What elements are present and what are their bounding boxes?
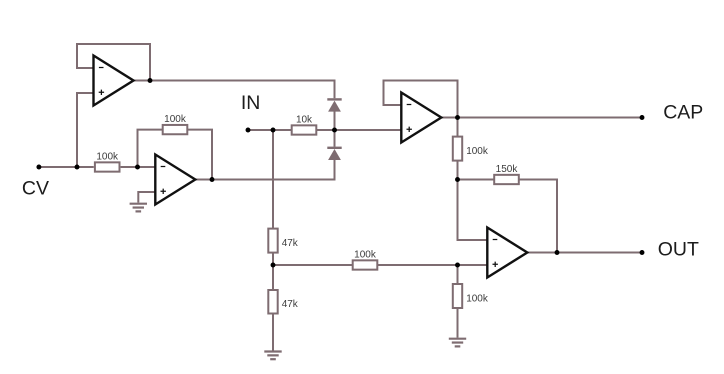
svg-text:CAP: CAP (663, 102, 703, 124)
resistor 100k (U3 output to U4 - node) (453, 137, 489, 161)
svg-text:100k: 100k (164, 114, 187, 125)
junction: divider mid node (271, 263, 276, 268)
wire: U1 output row to top diode D1 (134, 81, 335, 99)
wire: U2 feedback loop via R2 (138, 130, 213, 180)
svg-text:100k: 100k (466, 146, 489, 157)
wire: U3 output to CAP terminal (442, 117, 642, 119)
svg-text:100k: 100k (96, 151, 119, 162)
resistor 100k (divider to U4 +) (353, 249, 378, 269)
wire: 150k feedback row to U4 output (458, 180, 558, 253)
terminal node CAP (640, 115, 645, 120)
ground (divider bottom) (264, 352, 281, 360)
junction: U4 + node (455, 263, 460, 268)
resistor 47k (divider top) (268, 229, 299, 253)
wire: U1 feedback loop (output to - input) (77, 44, 150, 81)
svg-text:IN: IN (241, 92, 261, 114)
resistor 100k (U4 + node to ground) (453, 284, 489, 308)
terminal node CV (36, 165, 41, 170)
resistor 100k (CV input) (95, 151, 120, 171)
op-amp U1 (CV buffer) (94, 56, 134, 106)
wire: D2 anode down and left to U2 output (195, 160, 335, 180)
wire: U4 + node down through R6 to ground (457, 265, 459, 338)
terminal node IN (246, 128, 251, 133)
junction: R4 / R5 / U4 - node (455, 177, 460, 182)
junction: IN / divider (271, 128, 276, 133)
terminal node OUT (640, 250, 645, 255)
wire: IN node down through 47k divider to ground (272, 130, 274, 352)
junction: U2 - input node (135, 165, 140, 170)
svg-text:OUT: OUT (658, 238, 699, 260)
resistor 100k (U2 feedback) (163, 114, 188, 134)
op-amp U3 (CAP buffer) (401, 93, 441, 143)
wire: divider node through R9 to U4 + input (273, 264, 488, 266)
resistor 10k (IN series) (292, 114, 317, 134)
wire: R1 to U2 - input (121, 166, 155, 168)
svg-text:100k: 100k (354, 249, 377, 260)
junction: U3 output node (455, 115, 460, 120)
diode D1 (points up to U1 output row) (327, 98, 341, 111)
resistor 150k (U4 feedback) (494, 164, 519, 184)
svg-text:150k: 150k (496, 164, 519, 175)
wire: U4 output to OUT terminal (528, 252, 643, 254)
op-amp U4 (output amp) (487, 228, 527, 278)
junction: U1 output node (148, 78, 153, 83)
ground (U4 + node) (449, 339, 466, 347)
svg-text:47k: 47k (282, 299, 299, 310)
svg-text:CV: CV (22, 178, 49, 200)
svg-text:47k: 47k (282, 238, 299, 249)
svg-text:100k: 100k (466, 293, 489, 304)
junction: CV node / U1 + input (75, 165, 80, 170)
svg-text:10k: 10k (296, 114, 313, 125)
wire: CV terminal to R1 (39, 166, 94, 168)
wire: U3 feedback loop (output to - input) (384, 81, 458, 118)
ground (U2 + input) (130, 204, 147, 212)
wire: IN row through R3 to U3 + input (248, 129, 402, 131)
resistor 47k (divider bottom) (268, 290, 299, 314)
op-amp U2 (inverting, gain -1) (155, 155, 195, 205)
wire: D1 anode to diode node (334, 111, 336, 146)
wire: op-amp U1 + input down to CV node (77, 93, 94, 167)
junction: diode node / R3 / U3 + (332, 128, 337, 133)
wire: U2 + input to ground (138, 192, 155, 203)
diode D2 (points up to diode node) (327, 147, 341, 160)
junction: U4 output / feedback (555, 250, 560, 255)
junction: U2 output node (210, 177, 215, 182)
wire: U3 output down through R4 to U4 - input (458, 118, 488, 241)
